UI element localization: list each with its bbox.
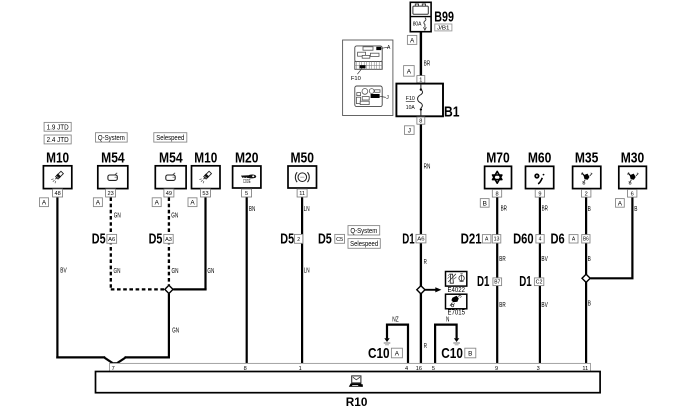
- wire join V-notch at R10 pin 7: [104, 356, 125, 364]
- ECU R10 connector strip: [110, 363, 591, 371]
- svg-text:80A: 80A: [413, 22, 422, 28]
- connector label D6 pins A/B6: [551, 231, 591, 248]
- M54 pin 23: [106, 189, 116, 197]
- connector A of B1: [404, 66, 415, 77]
- svg-text:D5: D5: [280, 231, 294, 248]
- reference icon E7015 (code key): [446, 294, 467, 309]
- svg-text:BR: BR: [499, 256, 505, 263]
- wire B1 to R10 pin16, RN / R: [420, 116, 422, 363]
- svg-text:NZ: NZ: [392, 316, 399, 323]
- svg-text:B: B: [588, 206, 591, 213]
- M30 pin 6: [628, 190, 637, 198]
- fusebox B1 with fuse F10 10A: [396, 84, 443, 117]
- component M54 box (Selespeed): [155, 166, 186, 189]
- wire colour BR (M60 top): [542, 206, 548, 213]
- svg-text:Q-System: Q-System: [98, 135, 125, 142]
- tag J/B1: [435, 24, 452, 32]
- wire colour B (M35 top): [588, 206, 591, 213]
- svg-text:D1: D1: [402, 231, 414, 248]
- svg-text:D60: D60: [513, 231, 534, 248]
- svg-text:3: 3: [537, 366, 540, 372]
- junction diamond on battery wire: [417, 286, 425, 294]
- svg-text:M50: M50: [290, 150, 314, 167]
- svg-text:D6: D6: [551, 231, 565, 248]
- svg-text:R10: R10: [346, 395, 368, 409]
- connector J of B1: [405, 126, 415, 135]
- M10 pin 53: [201, 189, 211, 197]
- wire colour R (below junction): [424, 343, 427, 350]
- svg-text:Selespeed: Selespeed: [156, 135, 184, 142]
- variant tag Selespeed: [154, 133, 187, 142]
- svg-text:16: 16: [416, 366, 422, 372]
- component M10 box (right): [192, 166, 221, 189]
- label B99: [434, 9, 454, 26]
- wire colour R (above junction): [424, 259, 427, 266]
- svg-text:GN: GN: [114, 212, 121, 219]
- variant tag 2.4 JTD: [44, 135, 71, 144]
- svg-text:B7: B7: [494, 280, 500, 286]
- svg-text:A: A: [155, 200, 160, 207]
- svg-text:49: 49: [166, 191, 172, 197]
- connector label D21 pins A/13: [461, 231, 501, 248]
- component M30 label (washer pump, pin6): [621, 150, 645, 167]
- variant tag 1.9 JTD: [44, 122, 71, 131]
- wire M50-11 LN to R10 pin1: [301, 197, 303, 364]
- svg-text:B: B: [468, 350, 472, 357]
- svg-text:M10: M10: [194, 150, 217, 167]
- wire colour GN (top, Selespeed): [171, 212, 178, 219]
- svg-text:A: A: [410, 37, 415, 44]
- wire GN from junction down to pin7 run: [125, 294, 169, 359]
- connector label D5 pin C5 (variants): [318, 231, 345, 248]
- svg-text:J: J: [408, 128, 411, 135]
- svg-text:R: R: [424, 259, 427, 266]
- svg-text:A: A: [395, 350, 400, 357]
- wire colour GN (below junction): [172, 327, 179, 334]
- wire colour BN: [249, 206, 255, 213]
- component M35 box (pump icon): [573, 166, 601, 188]
- svg-text:M60: M60: [528, 150, 552, 167]
- component M60 box (horn icon): [526, 166, 554, 188]
- svg-text:48: 48: [54, 191, 60, 197]
- label R10: [346, 395, 368, 409]
- svg-text:A: A: [42, 200, 47, 207]
- svg-text:C10: C10: [441, 345, 463, 362]
- M54 pin 49: [164, 189, 174, 197]
- connector label D1 pin A6 (battery wire): [402, 231, 426, 248]
- svg-text:C10: C10: [368, 345, 390, 362]
- wire colour BR (M70 mid): [499, 256, 505, 263]
- svg-text:53: 53: [202, 191, 208, 197]
- wire colour LN (top): [304, 206, 310, 213]
- wire colour GN (M10-53): [207, 268, 214, 275]
- B1 pin 1: [417, 76, 425, 84]
- svg-text:M70: M70: [486, 150, 510, 167]
- R10 pin 1: [299, 366, 302, 372]
- connector label D60 pin 4: [513, 231, 544, 248]
- svg-text:BR: BR: [542, 206, 548, 213]
- component M10 label (injector, pin48): [46, 150, 69, 167]
- connector B of M70: [480, 199, 489, 208]
- svg-text:D1: D1: [477, 273, 489, 290]
- wire colour BR (M70 bottom): [499, 302, 505, 309]
- connector label D1 pin B7: [477, 273, 502, 290]
- wire colour BR (M70 top): [501, 206, 507, 213]
- wire colour BR (battery feed): [424, 60, 430, 67]
- svg-text:M10: M10: [46, 150, 69, 167]
- svg-text:A3: A3: [165, 237, 172, 243]
- R10 pin 8: [244, 366, 247, 372]
- svg-text:R: R: [424, 343, 427, 350]
- svg-text:C5: C5: [336, 237, 343, 243]
- component M35 label (washer pump, pin2): [575, 150, 599, 167]
- R10 pin 16: [416, 366, 422, 372]
- svg-text:BV: BV: [541, 302, 548, 309]
- connector label D5 pin A6: [92, 231, 117, 248]
- svg-text:4: 4: [405, 366, 408, 372]
- ground label C10 connector A: [368, 345, 402, 362]
- wire colour B (below junction): [588, 301, 591, 308]
- svg-text:A: A: [618, 200, 623, 207]
- svg-text:1.9 JTD: 1.9 JTD: [47, 124, 69, 131]
- svg-text:8: 8: [244, 366, 247, 372]
- svg-text:E4022: E4022: [448, 287, 466, 294]
- svg-text:B6: B6: [583, 237, 589, 243]
- component M70 label (AC compressor, pin8): [486, 150, 510, 167]
- svg-text:2: 2: [297, 237, 300, 243]
- svg-text:GN: GN: [172, 268, 179, 275]
- svg-text:B: B: [634, 206, 637, 213]
- ground symbol C10-B: [453, 338, 460, 345]
- svg-text:2.4 JTD: 2.4 JTD: [47, 137, 69, 144]
- wire M10-53 GN: [173, 197, 206, 289]
- wire colour BV (M60 mid): [541, 256, 548, 263]
- R10 pin 4: [405, 366, 408, 372]
- svg-text:D21: D21: [461, 231, 482, 248]
- M35 pin 2: [582, 190, 591, 198]
- svg-text:13: 13: [494, 237, 500, 243]
- wire colour N: [446, 316, 449, 323]
- ground label C10 connector B: [441, 345, 476, 362]
- svg-text:5: 5: [245, 191, 248, 197]
- junction diamond GN columns: [165, 285, 173, 293]
- svg-text:M30: M30: [621, 150, 645, 167]
- svg-text:BV: BV: [60, 268, 67, 275]
- svg-text:BR: BR: [501, 206, 507, 213]
- arrow from junction to E4022/E7015: [425, 287, 442, 292]
- svg-text:LN: LN: [304, 206, 310, 213]
- wire colour RN: [424, 164, 431, 171]
- wire C10-B ground N from R10 pin5: [435, 325, 457, 364]
- svg-text:1: 1: [419, 77, 422, 83]
- label E7015: [448, 310, 466, 317]
- svg-text:A: A: [190, 200, 195, 207]
- svg-text:9: 9: [495, 366, 498, 372]
- wire colour GN (lower, Selespeed): [172, 268, 179, 275]
- svg-text:GN: GN: [172, 327, 179, 334]
- svg-text:B: B: [483, 200, 487, 207]
- label B1: [444, 103, 460, 120]
- wire M70-8 BR to R10 pin9: [496, 197, 498, 364]
- R10 computer icon: [349, 376, 363, 387]
- component M30 box (pump icon): [619, 166, 647, 188]
- M50 pin 11: [297, 189, 307, 197]
- wire colour BV (M60 bottom): [541, 302, 548, 309]
- svg-text:M54: M54: [101, 150, 125, 167]
- junction diamond M35/M30: [582, 274, 590, 282]
- svg-text:M35: M35: [575, 150, 599, 167]
- R10 pin 9: [495, 366, 498, 372]
- svg-text:C2: C2: [536, 280, 543, 286]
- fusebox location illustration F10: [343, 40, 393, 116]
- svg-text:4: 4: [539, 237, 542, 243]
- svg-text:M20: M20: [235, 150, 259, 167]
- svg-text:BN: BN: [249, 206, 255, 213]
- component M50 box: [288, 166, 317, 188]
- reference icon E4022 (seat belt warning): [446, 272, 467, 287]
- wire C10-A ground NZ from R10 pin4: [387, 325, 408, 364]
- svg-text:7: 7: [112, 366, 115, 372]
- svg-text:GN: GN: [171, 212, 178, 219]
- variant tag Selespeed (right): [348, 239, 380, 249]
- svg-text:10A: 10A: [406, 105, 416, 111]
- svg-text:2: 2: [585, 191, 588, 197]
- wire colour GN (lower, Q-System): [114, 268, 121, 275]
- battery B99 box with 80A fuse: [410, 2, 431, 31]
- R10 pin 11: [582, 366, 588, 372]
- ECU R10 box: [96, 372, 601, 393]
- component M20 box: [233, 166, 261, 188]
- component M54 box (Q-System): [98, 166, 128, 189]
- svg-text:A: A: [407, 68, 412, 75]
- connector A of B99: [407, 35, 416, 44]
- variant tag Q-System (right): [348, 226, 380, 235]
- svg-text:A: A: [96, 200, 101, 207]
- M20 pin 5: [242, 189, 252, 197]
- svg-text:D1: D1: [519, 273, 531, 290]
- wire colour NZ: [392, 316, 399, 323]
- wire colour LN (lower): [304, 268, 310, 275]
- component M50 label (immobiliser aerial, pin11): [290, 150, 314, 167]
- svg-text:F10: F10: [351, 76, 361, 82]
- component M54 label (Selespeed, pin49): [159, 150, 183, 167]
- svg-text:11: 11: [299, 191, 305, 197]
- wire M35-2 B to R10 pin11: [585, 197, 587, 364]
- svg-text:B: B: [588, 301, 591, 308]
- B1 pin 8: [417, 117, 425, 125]
- svg-text:5: 5: [432, 366, 435, 372]
- svg-text:23: 23: [107, 191, 113, 197]
- M10 pin 48: [53, 189, 63, 197]
- wire colour B (M30): [634, 206, 637, 213]
- svg-text:8: 8: [495, 191, 498, 197]
- svg-text:GN: GN: [114, 268, 121, 275]
- svg-text:D5: D5: [318, 231, 332, 248]
- connector A of M54-23: [93, 198, 102, 207]
- component M20 label (key CODE, pin5): [235, 150, 259, 167]
- wire M54-23 dashed GN: [111, 197, 165, 289]
- ground symbol C10-A: [384, 338, 391, 345]
- wire M30-6 B joining M35 wire: [590, 197, 632, 278]
- M60 pin 9: [535, 190, 544, 198]
- component M10 box (left): [43, 166, 71, 189]
- svg-text:A6: A6: [417, 237, 425, 243]
- svg-text:BR: BR: [424, 60, 430, 67]
- component M70 box (snowflake icon): [485, 166, 512, 188]
- svg-text:Q-System: Q-System: [350, 228, 377, 235]
- connector A of M54-49: [152, 198, 161, 207]
- svg-text:Selespeed: Selespeed: [350, 241, 378, 248]
- svg-text:N: N: [446, 316, 449, 323]
- connector A of M10-53: [188, 198, 197, 207]
- svg-text:J/B1: J/B1: [437, 26, 450, 32]
- label E4022: [448, 287, 466, 294]
- svg-text:A6: A6: [108, 237, 115, 243]
- svg-text:6: 6: [631, 191, 634, 197]
- svg-text:M54: M54: [159, 150, 183, 167]
- svg-text:1: 1: [299, 366, 302, 372]
- svg-text:RN: RN: [424, 164, 431, 171]
- R10 pin 3: [537, 366, 540, 372]
- component M10 label (injector, pin53): [194, 150, 217, 167]
- wire M10-48 to R10 pin7, BV: [56, 197, 105, 358]
- component M54 label (Q-System, pin23): [101, 150, 125, 167]
- svg-text:GN: GN: [207, 268, 214, 275]
- svg-text:B99: B99: [434, 9, 454, 26]
- svg-text:8: 8: [419, 119, 422, 125]
- connector label D5 pin A3: [149, 231, 174, 248]
- wire M54-49 dashed GN: [168, 197, 170, 285]
- svg-text:D5: D5: [149, 231, 163, 248]
- component M60 label (horn, pin9): [528, 150, 552, 167]
- wire B99 to B1, BR: [420, 32, 422, 85]
- connector A of M30: [616, 199, 625, 208]
- wire colour B (M35 mid): [588, 256, 591, 263]
- svg-text:LN: LN: [304, 268, 310, 275]
- svg-text:B1: B1: [444, 103, 460, 120]
- connector label D5 pin 2: [280, 231, 303, 248]
- svg-text:B: B: [588, 256, 591, 263]
- svg-text:BV: BV: [541, 256, 548, 263]
- wire M60-9 BR/BV to R10 pin3: [539, 197, 541, 364]
- R10 pin 7: [112, 366, 115, 372]
- R10 pin 5: [432, 366, 435, 372]
- svg-text:E7015: E7015: [448, 310, 466, 317]
- connector label D1 pin C2: [519, 273, 544, 290]
- wire colour GN (top, Q-System): [114, 212, 121, 219]
- connector A of M10-48: [40, 198, 49, 207]
- svg-text:BR: BR: [499, 302, 505, 309]
- svg-text:D5: D5: [92, 231, 106, 248]
- svg-text:9: 9: [538, 191, 541, 197]
- M70 pin 8: [492, 190, 501, 198]
- svg-text:CODE: CODE: [243, 179, 251, 185]
- variant tag Q-System: [96, 133, 128, 142]
- wire colour BV: [60, 268, 67, 275]
- svg-text:11: 11: [582, 366, 588, 372]
- wire M20-5 BN to R10 pin8: [246, 197, 248, 364]
